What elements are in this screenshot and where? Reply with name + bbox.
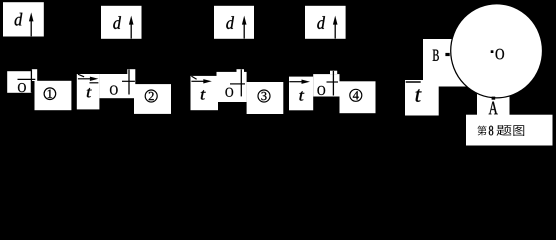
- text B: [433, 50, 439, 61]
- caption box: [466, 115, 553, 146]
- center dot: [491, 50, 494, 53]
- d-axis up arrow 4: [333, 16, 338, 39]
- circled number 3: [258, 90, 270, 102]
- text d (graph 2): [113, 16, 121, 29]
- text d (graph 3): [226, 16, 234, 29]
- graph 1 horizontal axis: [18, 78, 36, 80]
- graph 2 curve remnant (horizontal): [90, 82, 99, 84]
- text t (right figure): [416, 89, 422, 102]
- circled number 1: [44, 88, 56, 100]
- graph 2 axis tick: [122, 80, 135, 82]
- graph 3 t-axis arrow: [191, 79, 211, 83]
- label box B patch: [423, 39, 466, 87]
- circle (wheel): [451, 4, 543, 98]
- graph 2 t-axis arrow: [78, 77, 99, 81]
- text tu (caption char 4): [513, 125, 524, 136]
- text t (graph 3): [201, 90, 206, 99]
- text O (graph 2 origin): [110, 86, 118, 95]
- text O (graph 3 origin): [225, 88, 233, 97]
- d-axis label box 4: [305, 6, 346, 39]
- text 3 (circled): [261, 92, 266, 100]
- graph 1 axis notch patch: [31, 69, 37, 81]
- text ti (caption char 3): [497, 125, 512, 135]
- circled number 4: [350, 89, 362, 101]
- graph 3 axis tick: [230, 83, 245, 85]
- d-axis up arrow 1: [29, 12, 34, 36]
- point B marker: [445, 53, 449, 56]
- point A marker: [492, 97, 496, 100]
- right figure connector patch: [424, 60, 439, 116]
- text t (graph 4): [299, 91, 304, 100]
- text di (caption char 1): [477, 126, 486, 136]
- text A: [489, 102, 498, 115]
- text 8 (caption): [489, 126, 493, 135]
- d-axis label box 3: [214, 6, 254, 39]
- d-axis label box 2: [101, 6, 142, 39]
- text d (graph 4): [317, 16, 325, 29]
- label box 1: [35, 81, 72, 110]
- graph 2 white patches: [77, 74, 100, 109]
- graph 4 white patches: [289, 77, 313, 111]
- text d (graph 1): [15, 13, 23, 26]
- graph 2 vertical axis: [128, 69, 130, 94]
- graph 4 vertical axis: [332, 71, 334, 96]
- text O (graph 4 origin): [317, 86, 325, 95]
- text 4 (circled): [353, 91, 359, 99]
- right figure t label box: [405, 80, 429, 116]
- text O (graph 1 origin): [18, 83, 26, 92]
- d-axis up arrow 3: [242, 16, 247, 39]
- text 2 (circled): [149, 92, 154, 100]
- d-axis label box 1: [3, 2, 44, 36]
- graph 3 vertical axis: [240, 69, 242, 96]
- graph 3 white patches: [191, 76, 219, 110]
- graph 1 vertical axis: [30, 69, 32, 92]
- label box A patch: [477, 94, 510, 116]
- text O (circle center): [496, 49, 504, 60]
- text t (graph 2): [87, 88, 92, 97]
- text 1 (circled): [48, 90, 52, 98]
- graph 3 curve remnant (diagonal): [191, 76, 196, 79]
- d-axis up arrow 2: [129, 16, 134, 39]
- circled number 2: [145, 90, 157, 102]
- graph 4 axis tick: [327, 81, 339, 83]
- graph 1 origin box: [7, 71, 31, 93]
- top line in right t box: [406, 81, 421, 83]
- graph 2 curve remnant (diagonal): [78, 74, 84, 77]
- graph 4 t-axis arrow: [289, 80, 310, 84]
